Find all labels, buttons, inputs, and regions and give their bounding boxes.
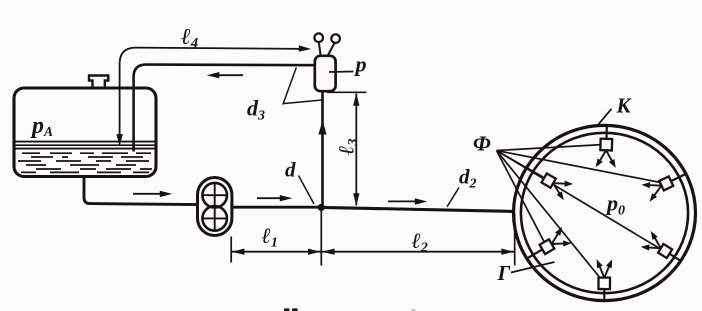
injector bottom bbox=[597, 259, 613, 301]
spray fan lines from point phi bbox=[497, 145, 665, 282]
svg-text:Ф: Ф bbox=[473, 132, 491, 156]
wire: vertical pipe node to regulator bbox=[321, 91, 324, 207]
label d2 leader bbox=[447, 188, 459, 207]
regulator stem left bbox=[319, 43, 321, 57]
injector lower-left bbox=[527, 227, 572, 259]
extension line below node bbox=[320, 209, 322, 266]
regulator ball right bbox=[331, 34, 340, 43]
liquid surface lines bbox=[16, 141, 155, 143]
l3 top extension line bbox=[327, 91, 367, 93]
l4 arrow at regulator bbox=[299, 45, 312, 51]
wire: return pipe regulator to tank bbox=[134, 65, 315, 152]
injector upper-left bbox=[527, 168, 574, 200]
tank filler cap bbox=[89, 76, 108, 90]
dimension l4 line bbox=[120, 48, 303, 140]
pump gear bottom circle bbox=[202, 206, 227, 231]
regulator stem right bbox=[327, 43, 334, 56]
tank (fuel reservoir) bbox=[14, 88, 156, 177]
chamber inner wall bbox=[521, 133, 688, 293]
regulator ball left bbox=[314, 33, 323, 42]
chamber K outer wall bbox=[514, 125, 696, 300]
extension line at chamber bbox=[514, 214, 516, 266]
liquid hatching dashes bbox=[18, 153, 152, 172]
svg-text:р: р bbox=[354, 52, 367, 77]
dimension l2 line bbox=[321, 251, 514, 253]
wire: pipe pump to node d bbox=[232, 206, 321, 209]
label Gamma leader bbox=[511, 262, 555, 273]
node d (pipe junction) bbox=[318, 204, 325, 211]
dimension l3 line bbox=[355, 94, 357, 206]
label p (regulator) leader bbox=[329, 71, 354, 74]
injector lower-right bbox=[641, 231, 681, 261]
caption fragment left bbox=[284, 309, 297, 311]
regulator U1 body bbox=[315, 56, 336, 91]
flow arrow (node to chamber) bbox=[388, 200, 420, 202]
dimension l1 line bbox=[231, 251, 321, 253]
flow arrow (return flow to tank) bbox=[214, 74, 243, 76]
l1 extension line at pump bbox=[230, 237, 232, 263]
injector top bbox=[596, 125, 616, 167]
flow arrow (tank to pump) bbox=[133, 193, 165, 195]
flow arrow (pump to node) bbox=[257, 197, 285, 199]
l4 arrow into tank bbox=[116, 134, 122, 147]
wire: pipe d2 from node to chamber bbox=[321, 207, 514, 211]
label K leader bbox=[596, 109, 612, 127]
label d (pipe diameter) leader bbox=[299, 176, 315, 205]
pump gear top circle bbox=[202, 183, 227, 208]
label d3 leader (bent) bbox=[283, 68, 322, 104]
pump (gear pump) body bbox=[198, 178, 232, 236]
svg-text:Г: Г bbox=[497, 261, 511, 285]
flow arrow (up to regulator) bbox=[322, 128, 324, 144]
svg-text:d: d bbox=[285, 158, 296, 182]
svg-text:К: К bbox=[616, 94, 633, 118]
injector right bbox=[642, 174, 686, 202]
caption fragment right bbox=[411, 309, 415, 311]
wire: suction pipe from tank to pump bbox=[84, 175, 198, 205]
